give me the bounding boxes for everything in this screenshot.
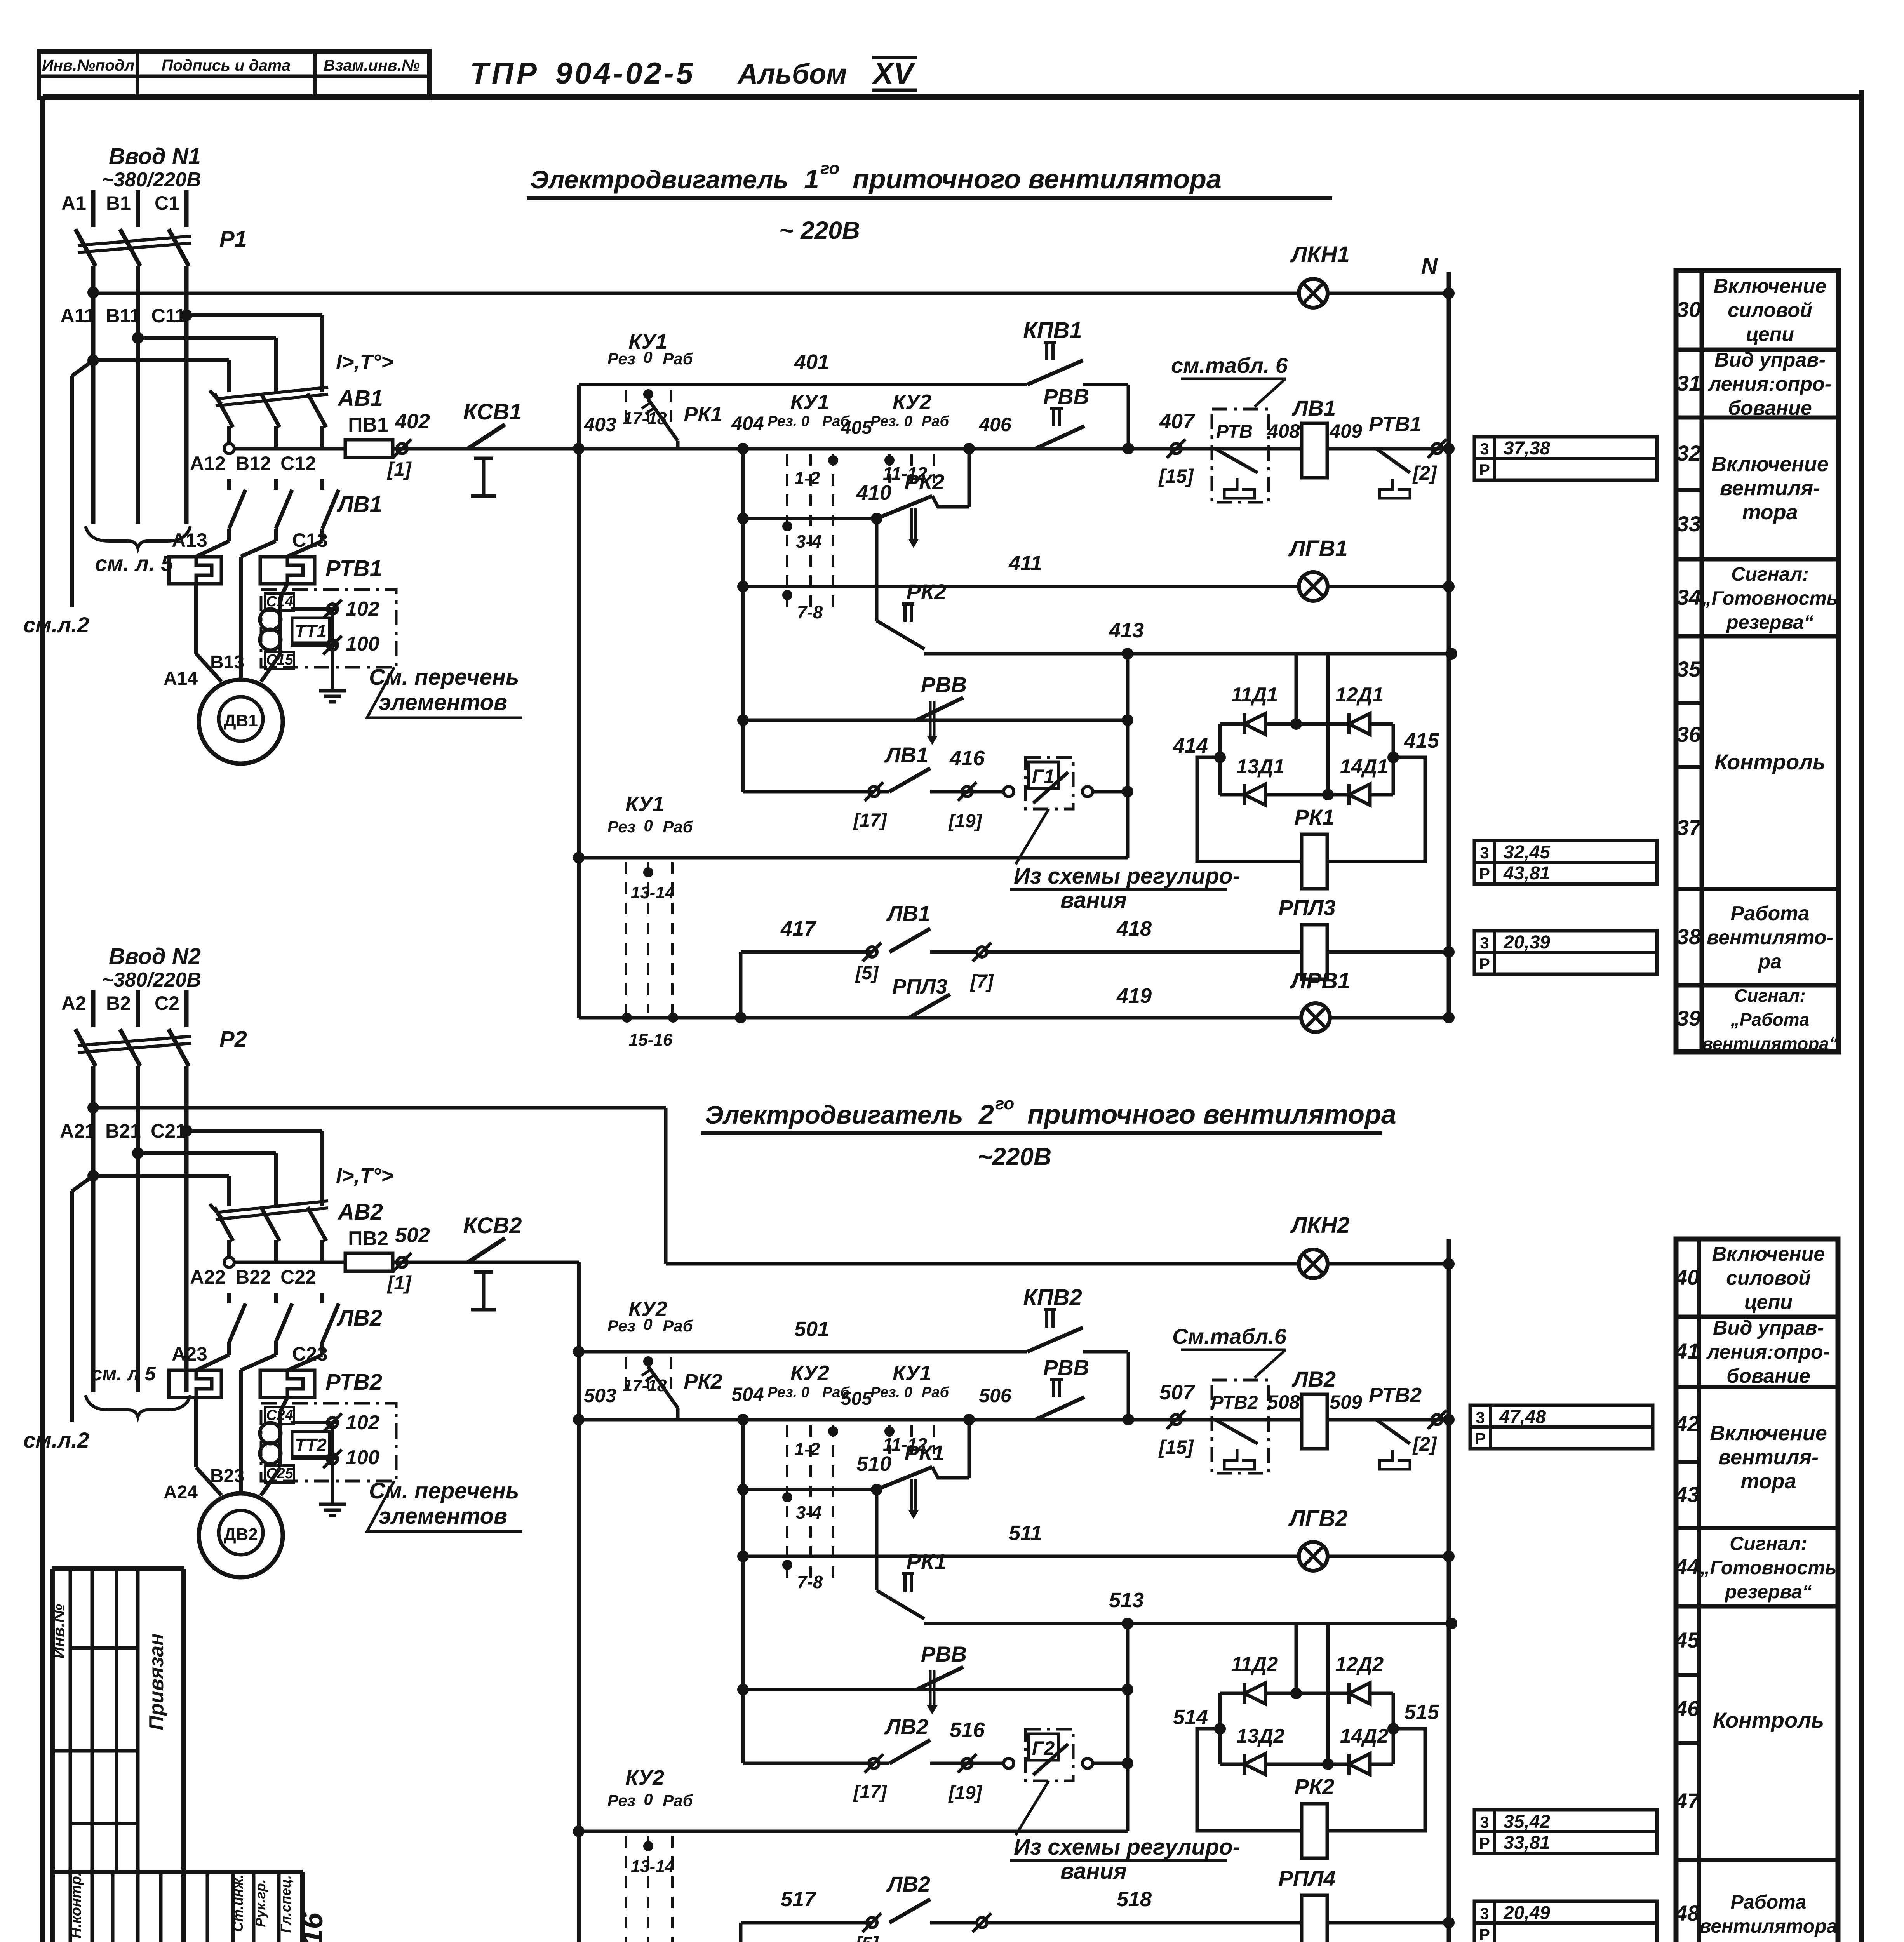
vertical link x2903 [1126,1624,1130,1831]
svg-text:Г2: Г2 [1032,1737,1055,1759]
svg-text:514: 514 [1173,1705,1208,1729]
title block sub lines [70,1646,138,1650]
svg-text:17333-16: 17333-16 [296,1912,329,1942]
svg-text:РПЛ3: РПЛ3 [1278,895,1335,920]
svg-text:см. л. 5: см. л. 5 [95,551,174,576]
svg-text:силовой: силовой [1728,299,1812,322]
svg-text:Инв.№: Инв.№ [49,1604,68,1659]
lamp ЛГВ2 [1299,1542,1328,1571]
svg-text:Рез. 0: Рез. 0 [768,1384,809,1401]
svg-text:С25: С25 [266,1465,294,1482]
reference box 47,48 [1470,1405,1653,1449]
plug break [2] to N [1432,1415,1442,1425]
rung with РВВ time contact [743,1688,1128,1691]
loop to relay coil РК2 [1197,1729,1302,1831]
svg-text:401: 401 [794,350,829,374]
svg-text:33: 33 [1677,512,1701,536]
svg-text:С24: С24 [266,1407,293,1423]
svg-text:вентилятора: вентилятора [1699,1915,1837,1937]
node B11 branch [132,332,144,344]
svg-text:вания: вания [1060,1858,1127,1884]
svg-text:~380/220В: ~380/220В [102,169,201,191]
svg-text:А21: А21 [60,1120,96,1142]
svg-text:РВВ: РВВ [1043,1355,1089,1380]
svg-text:407: 407 [1159,410,1196,433]
svg-text:11Д2: 11Д2 [1231,1653,1278,1676]
svg-text:элементов: элементов [379,690,507,715]
svg-text:„Работа: „Работа [1730,1009,1809,1030]
svg-text:ЛВ1: ЛВ1 [886,901,930,926]
svg-text:Альбом: Альбом [737,59,847,90]
phase stubs A1 B1 C1 [91,190,96,227]
svg-text:РТВ2: РТВ2 [1369,1383,1422,1407]
wire 513 [924,1622,1451,1625]
svg-text:ДВ1: ДВ1 [224,711,258,730]
svg-text:Раб: Раб [663,1791,693,1810]
svg-text:РТВ1: РТВ1 [1369,412,1422,436]
diode 12Д1 [1349,713,1370,734]
svg-text:0: 0 [644,1790,653,1808]
plug lines 13-14 / 15-16 [625,1836,627,1942]
svg-text:36: 36 [1677,722,1701,747]
svg-text:502: 502 [395,1223,430,1247]
svg-text:вентиля-: вентиля- [1720,477,1820,500]
svg-text:РК1: РК1 [1295,805,1335,829]
left control bus [577,1262,581,1942]
svg-text:[5]: [5] [855,963,879,983]
svg-text:Ввод N2: Ввод N2 [109,944,201,969]
diode 12Д2 [1349,1683,1370,1704]
svg-text:31: 31 [1677,371,1701,395]
svg-text:резерва“: резерва“ [1724,1581,1812,1603]
svg-text:32,45: 32,45 [1504,842,1551,863]
phase A wire to motor [194,1397,198,1467]
svg-text:516: 516 [950,1718,985,1742]
diode bridge rows [1220,722,1393,726]
node A21 top wire junction [87,1102,99,1114]
svg-text:20,39: 20,39 [1503,932,1550,953]
svg-text:АВ2: АВ2 [337,1199,383,1225]
svg-text:~380/220В: ~380/220В [102,969,201,991]
svg-text:3-4: 3-4 [796,1502,821,1523]
plug lines 13-14 / 15-16 [625,862,627,1013]
rung 419 with РПЛ3 contact and lamp ЛРВ1 [579,1016,1299,1020]
svg-text:507: 507 [1159,1381,1196,1404]
svg-text:ПВ2: ПВ2 [348,1227,388,1250]
rung 417 - 418 [741,950,872,954]
contactor coil ЛВ2 [1302,1394,1327,1449]
svg-text:3: 3 [1480,440,1489,458]
svg-text:КСВ2: КСВ2 [463,1213,522,1238]
svg-text:[17]: [17] [853,810,887,831]
svg-text:С1: С1 [155,192,179,214]
time relay contact РВВ on main rung [1036,426,1084,449]
svg-text:А12: А12 [190,452,226,474]
svg-text:515: 515 [1404,1700,1439,1724]
svg-text:РК2: РК2 [907,579,947,604]
svg-text:100: 100 [346,1446,379,1469]
brace см.л.5 [85,1395,190,1417]
svg-text:14Д2: 14Д2 [1340,1725,1388,1747]
brace см.л.5 [85,526,190,548]
svg-text:510: 510 [856,1452,891,1476]
svg-text:39: 39 [1677,1006,1701,1030]
svg-text:43,81: 43,81 [1503,863,1550,884]
node 504 [737,1414,749,1425]
vertical from node 404 down [741,1420,745,1763]
svg-text:С22: С22 [280,1266,316,1288]
svg-text:РПЛ4: РПЛ4 [1278,1866,1335,1890]
svg-text:Р: Р [1479,955,1490,973]
svg-text:1-2: 1-2 [794,468,820,488]
thermal element РТВ2 phase C [287,1355,322,1370]
svg-text:А11: А11 [61,305,95,327]
circuit breaker АВ1 [227,383,231,392]
node 414 [1214,752,1226,763]
svg-text:КУ1: КУ1 [625,792,664,816]
control tap circle on A22 [224,1257,234,1267]
svg-text:509: 509 [1330,1391,1362,1413]
vertical link x2903 [1126,654,1130,858]
svg-text:Р: Р [1479,865,1490,883]
fuse ПВ1 control rung [234,447,346,451]
svg-text:411: 411 [1008,552,1042,575]
svg-text:413: 413 [1109,619,1144,642]
thermal element РТВ1 phase C [287,541,322,557]
key КУ2 contacts cluster 11-12 [888,454,891,483]
dashed box Г1 [1025,757,1073,809]
svg-text:15-16: 15-16 [629,1030,673,1049]
contactor ЛВ1 poles [227,479,231,490]
svg-text:ра: ра [1758,950,1782,973]
svg-text:РТВ2: РТВ2 [1211,1392,1258,1413]
branch A1 to breaker [87,355,99,366]
svg-text:ЛВ1: ЛВ1 [1291,396,1336,420]
svg-text:11Д1: 11Д1 [1231,684,1278,706]
diode 14Д2 [1349,1754,1370,1775]
disconnector Р2 [75,1029,96,1066]
svg-text:резерва“: резерва“ [1726,611,1813,633]
svg-text:В11: В11 [106,305,141,327]
CT ground [331,609,334,691]
fuse ПВ2 control rung [234,1261,346,1264]
phase vertical wires to см.л.5 [91,266,96,524]
svg-text:2: 2 [978,1099,994,1129]
svg-text:Р2: Р2 [219,1027,247,1052]
svg-text:РТВ2: РТВ2 [325,1369,382,1395]
svg-text:404: 404 [731,412,764,434]
node 515 [1387,1723,1399,1735]
svg-text:38: 38 [1677,924,1701,949]
svg-text:12Д1: 12Д1 [1335,684,1384,706]
node B21 branch [132,1147,144,1159]
diode 14Д1 [1349,784,1370,805]
svg-text:Рез. 0: Рез. 0 [768,413,809,430]
thermal contact РТВ1 [1363,447,1376,451]
svg-text:414: 414 [1173,734,1208,757]
svg-text:N: N [1421,254,1438,279]
relay coil РК2 [1302,1804,1327,1858]
contactor coil ЛВ1 [1302,423,1327,478]
svg-text:32: 32 [1677,441,1701,465]
CT secondary wire 102 [291,1421,338,1424]
svg-text:ЛГВ1: ЛГВ1 [1288,536,1348,561]
svg-text:ТПР: ТПР [470,56,540,90]
svg-text:С11: С11 [151,305,186,327]
vertical joining 417 and 419 rungs [739,952,743,1018]
svg-text:РТВ: РТВ [1216,421,1253,442]
svg-text:100: 100 [346,633,379,655]
svg-text:Г1: Г1 [1032,766,1055,787]
svg-text:I>,T°>: I>,T°> [336,350,393,374]
node 506 [963,1414,975,1425]
node 514 [1214,1723,1226,1735]
svg-text:КУ1: КУ1 [790,390,829,414]
svg-text:А13: А13 [172,529,207,551]
svg-text:С12: С12 [280,452,316,474]
signature table [52,1870,303,1874]
key КУ1 contacts cluster 1-2/3-4/7-8 [786,454,788,608]
svg-text:37,38: 37,38 [1504,438,1550,459]
svg-text:47: 47 [1675,1789,1700,1813]
svg-text:I>,T°>: I>,T°> [336,1164,393,1187]
svg-text:~220В: ~220В [978,1143,1051,1171]
svg-text:[17]: [17] [853,1782,887,1803]
reference box 35,42 [1474,1810,1657,1853]
svg-text:13Д1: 13Д1 [1236,755,1284,778]
svg-text:[19]: [19] [948,1783,982,1803]
svg-text:А2: А2 [61,992,86,1014]
phase A wire to motor [194,584,198,654]
svg-text:[1]: [1] [386,458,412,480]
thermal relay РТВ in dashed box [1212,409,1269,502]
svg-text:[1]: [1] [386,1272,412,1294]
svg-text:[7]: [7] [970,971,994,992]
svg-text:402: 402 [395,410,430,433]
second РК1 contact [875,1490,879,1590]
reference box 20,49 [1474,1901,1657,1942]
CT secondary wire 100 [291,1457,338,1460]
jog wire from phase A to circuit2 top [93,1106,666,1110]
svg-text:Ст.инж.: Ст.инж. [230,1874,246,1932]
svg-text:РВВ: РВВ [1043,384,1089,409]
disconnect switch КСВ1 [468,425,505,449]
svg-text:Р1: Р1 [219,226,247,252]
svg-text:Сигнал:: Сигнал: [1730,1533,1807,1554]
svg-text:46: 46 [1675,1696,1700,1721]
svg-text:В12: В12 [235,452,271,474]
reference box 32,45 [1474,840,1657,884]
svg-text:ЛВ2: ЛВ2 [1291,1367,1336,1391]
svg-text:Сигнал:: Сигнал: [1731,563,1809,585]
rung with РВВ time contact [743,719,1128,722]
svg-text:РВВ: РВВ [921,672,967,697]
svg-text:418: 418 [1116,917,1152,940]
svg-text:элементов: элементов [379,1503,507,1529]
svg-text:43: 43 [1675,1482,1699,1507]
svg-text:517: 517 [781,1888,817,1911]
svg-text:0: 0 [643,1315,652,1333]
svg-text:102: 102 [346,598,379,620]
svg-text:34: 34 [1677,585,1701,609]
svg-text:41: 41 [1675,1339,1699,1363]
phase B wire to motor [241,541,276,557]
dashed box Г2 [1025,1729,1073,1781]
reference box 20,39 [1474,931,1657,974]
svg-text:см.табл. 6: см.табл. 6 [1171,353,1288,378]
svg-text:Рез. 0: Рез. 0 [870,1384,912,1401]
right table rows 30-39 [1676,270,1839,1052]
svg-text:цепи: цепи [1744,1291,1793,1314]
drop from КПВ to main rung [1127,1352,1130,1420]
circuit breaker АВ2 [227,1196,231,1206]
header stamp table [39,51,429,98]
svg-text:В23: В23 [210,1466,244,1486]
wire 411 rung with lamp ЛГВ1 [743,585,1299,588]
node 404 [737,443,749,454]
svg-text:47,48: 47,48 [1499,1407,1546,1427]
plug break 402/502 [1] [397,1257,407,1267]
svg-text:ЛКН2: ЛКН2 [1290,1213,1350,1238]
svg-text:В22: В22 [235,1266,271,1288]
svg-text:417: 417 [780,917,817,940]
svg-text:[2]: [2] [1412,462,1437,484]
vertical from node 406 to rung 3-4 [968,1420,971,1478]
svg-text:бование: бование [1728,397,1812,419]
svg-text:С15: С15 [266,652,294,668]
svg-text:А22: А22 [190,1266,226,1288]
svg-text:Включение: Включение [1711,452,1829,476]
svg-text:КСВ1: КСВ1 [463,399,522,425]
wire 511 rung with lamp ЛГВ2 [743,1555,1299,1558]
second РК2 contact [875,519,879,621]
node C11 branch [181,310,192,321]
svg-text:13Д2: 13Д2 [1236,1725,1284,1747]
node C21 branch [181,1125,192,1136]
svg-text:В21: В21 [105,1120,141,1142]
svg-text:вентилято-: вентилято- [1707,926,1833,949]
drawing frame border [40,97,45,1942]
svg-text:ЛРВ2: ЛРВ2 [1290,1939,1351,1942]
plug break 407 [15] [1171,444,1181,454]
motor ДВ1 [199,680,283,764]
node A11 top wire junction [87,287,99,298]
svg-text:[15]: [15] [1158,465,1194,487]
vertical from node 404 down [741,449,745,792]
svg-text:РК1: РК1 [684,403,722,426]
title block outline upper narrow part [52,1566,184,1571]
svg-text:Рез: Рез [607,1317,635,1335]
svg-text:ЛВ2: ЛВ2 [886,1872,930,1896]
svg-text:[2]: [2] [1412,1433,1437,1455]
svg-text:приточного вентилятора: приточного вентилятора [1027,1099,1396,1129]
right table rows 40-49 [1676,1239,1838,1942]
svg-text:КПВ2: КПВ2 [1023,1285,1082,1310]
svg-text:12Д2: 12Д2 [1335,1653,1384,1676]
svg-text:А23: А23 [172,1343,207,1365]
relay coil РПЛ4 [1302,1895,1327,1942]
svg-text:1-2: 1-2 [794,1439,820,1459]
svg-text:Из схемы регулиро-: Из схемы регулиро- [1014,863,1240,889]
push-button КПВ2 on wire 501 [1027,1328,1083,1352]
svg-text:ТТ1: ТТ1 [295,621,327,641]
svg-text:Р: Р [1479,1925,1490,1942]
branch wire to см.л.2 [72,360,93,376]
svg-text:цепи: цепи [1746,323,1794,346]
svg-text:3: 3 [1480,844,1489,862]
svg-text:Взам.инв.№: Взам.инв.№ [324,56,420,74]
svg-text:20,49: 20,49 [1503,1903,1550,1923]
contactor ЛВ2 poles [227,1293,231,1303]
node 415 [1387,752,1399,763]
svg-text:42: 42 [1675,1411,1699,1436]
svg-text:403: 403 [583,414,616,435]
phase vertical wires to см.л.5 [91,1066,96,1392]
svg-text:1: 1 [804,164,819,194]
plug break 402/502 [1] [397,444,407,454]
svg-text:силовой: силовой [1726,1267,1811,1289]
svg-text:Включение: Включение [1710,1422,1827,1445]
rung with КУ1 13-14 [579,856,1128,860]
svg-text:503: 503 [584,1385,616,1406]
time relay contact РВВ on main rung [1036,1397,1084,1420]
svg-text:РК2: РК2 [1295,1774,1335,1799]
wire 413 [924,652,1451,656]
disconnect switch КСВ2 [468,1238,505,1262]
svg-text:РК2: РК2 [905,470,945,494]
rung with КУ2 13-14 [579,1830,1128,1833]
branch A2 to breaker [87,1170,99,1182]
svg-text:Инв.№подл: Инв.№подл [42,56,134,74]
svg-text:0: 0 [643,348,652,366]
svg-text:см. л 5: см. л 5 [91,1363,156,1385]
svg-text:904-02-5: 904-02-5 [555,56,695,90]
svg-text:3: 3 [1480,1904,1489,1923]
svg-text:см.л.2: см.л.2 [23,613,89,637]
wire 401 [579,383,1027,386]
svg-text:13-14: 13-14 [631,1857,675,1876]
relay contact РК1 to main rung [648,399,678,441]
key КУ2 contacts cluster 1-2/3-4/7-8 [786,1425,788,1578]
svg-text:XV: XV [872,56,916,90]
diode 11Д2 [1244,1683,1265,1704]
svg-text:С2: С2 [155,992,179,1014]
svg-text:Рез. 0: Рез. 0 [870,413,912,430]
svg-text:Вид управ-: Вид управ- [1714,349,1826,371]
lamp ЛКН2 [1299,1249,1328,1278]
svg-text:Р: Р [1479,1834,1490,1852]
svg-text:Раб: Раб [663,818,693,836]
lamp ЛРВ1 [1301,1003,1330,1032]
svg-text:РК2: РК2 [684,1370,722,1393]
svg-text:вентиля-: вентиля- [1718,1446,1819,1469]
svg-text:А24: А24 [164,1482,198,1503]
svg-text:505: 505 [841,1389,872,1409]
diode bridge drops [1295,654,1298,724]
svg-text:го: го [820,159,839,178]
N bus (circuit 1) [1447,272,1451,1018]
phase stubs A2 B2 C2 [91,990,96,1027]
diode 13Д2 [1244,1754,1265,1775]
svg-text:См.табл.6: См.табл.6 [1172,1324,1287,1349]
dashed box around CT [261,590,396,667]
svg-text:бование: бование [1726,1365,1810,1387]
svg-text:Из схемы регулиро-: Из схемы регулиро- [1014,1834,1240,1860]
svg-text:тора: тора [1740,1470,1796,1493]
vertical joining 417 and 419 rungs [739,1923,743,1942]
svg-text:[19]: [19] [948,811,982,832]
svg-text:В13: В13 [210,652,244,673]
